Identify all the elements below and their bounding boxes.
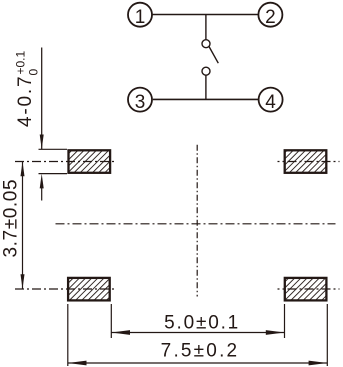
- extension line 5.0 left: [110, 304, 112, 338]
- centerline vertical middle: [196, 145, 198, 297]
- extension line 7.5 right: [326, 304, 328, 366]
- svg-text:4-0.7: 4-0.7: [15, 75, 36, 127]
- extension line 5.0 right: [284, 304, 286, 338]
- centerline bottom pads left: [15, 288, 117, 290]
- extension line pad top edge: [39, 148, 68, 150]
- svg-text:3: 3: [135, 92, 146, 113]
- pin 2 circle: [258, 3, 282, 28]
- dimension 4-0.7 arrow up: [40, 174, 44, 189]
- centerline top pads left: [15, 161, 117, 163]
- wire top stub to switch: [205, 15, 207, 40]
- svg-text:1: 1: [135, 7, 146, 28]
- pin 1 circle: [128, 3, 152, 28]
- dimension 7.5 arrow left: [68, 361, 87, 366]
- svg-text:4: 4: [265, 92, 276, 113]
- svg-text:3.7±0.05: 3.7±0.05: [1, 179, 22, 258]
- dimension 3.7 line: [22, 162, 24, 290]
- wire bottom stub to switch: [205, 75, 207, 99]
- wire pin1 to pin2: [152, 14, 258, 16]
- svg-text:7.5±0.2: 7.5±0.2: [161, 341, 240, 362]
- dimension 7.5 arrow right: [309, 361, 328, 366]
- dimension 5.0 line: [111, 332, 284, 334]
- pad bottom-right (hatched): [285, 278, 327, 301]
- dimension 4-0.7 leader line upper: [41, 48, 43, 150]
- dimension 5.0 arrow right: [266, 330, 285, 335]
- svg-text:5.0±0.1: 5.0±0.1: [164, 313, 240, 334]
- switch lower contact: [202, 67, 210, 75]
- pad top-right (hatched): [285, 150, 327, 173]
- pin 4 circle: [259, 88, 283, 114]
- centerline top pads right: [278, 161, 340, 163]
- extension line 7.5 left: [67, 304, 69, 366]
- dimension 3.7 arrow down: [21, 274, 25, 289]
- dimension 4-0.7 leader line lower: [41, 188, 43, 201]
- svg-text:0: 0: [27, 69, 41, 76]
- wire pin3 to pin4: [153, 98, 258, 100]
- pin 3 circle: [128, 88, 152, 114]
- pad bottom-left (hatched): [68, 278, 110, 301]
- centerline horizontal middle: [56, 223, 336, 225]
- dimension 4-0.7 arrow down: [40, 135, 44, 150]
- dimension 5.0 arrow left: [111, 330, 130, 335]
- dimension 7.5 line: [68, 362, 328, 364]
- svg-text:2: 2: [265, 7, 276, 28]
- pad top-left (hatched): [69, 150, 111, 173]
- extension line pad bottom edge: [39, 173, 68, 175]
- switch lever: [209, 47, 218, 64]
- svg-text:+0.1: +0.1: [14, 50, 28, 74]
- dimension 3.7 arrow up: [21, 162, 25, 177]
- centerline bottom pads right: [278, 288, 340, 290]
- switch upper contact: [202, 40, 210, 48]
